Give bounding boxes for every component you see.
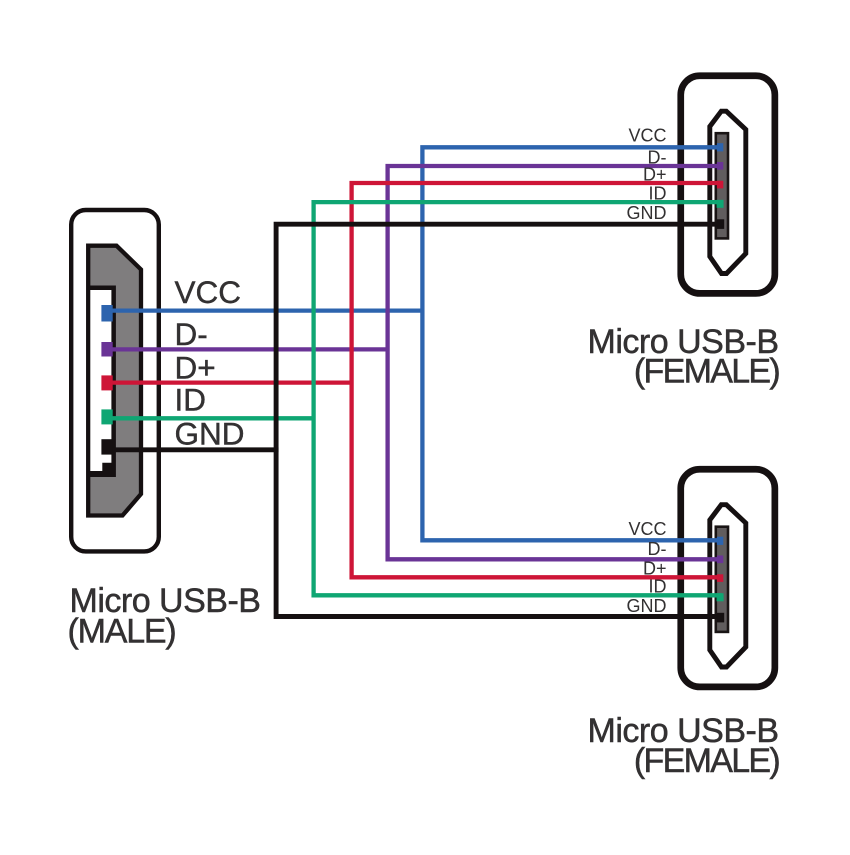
svg-text:VCC: VCC — [628, 519, 666, 539]
svg-text:GND: GND — [627, 596, 667, 616]
svg-text:ID: ID — [175, 382, 207, 418]
svg-text:GND: GND — [175, 415, 245, 451]
svg-text:(FEMALE): (FEMALE) — [634, 742, 779, 780]
svg-text:(MALE): (MALE) — [68, 612, 176, 650]
svg-text:D+: D+ — [643, 165, 667, 185]
svg-text:ID: ID — [649, 577, 667, 597]
svg-text:GND: GND — [627, 203, 667, 223]
svg-text:VCC: VCC — [175, 274, 242, 310]
svg-text:D+: D+ — [643, 558, 667, 578]
svg-text:D+: D+ — [175, 349, 216, 385]
svg-text:D-: D- — [648, 539, 667, 559]
svg-text:ID: ID — [649, 183, 667, 203]
svg-text:(FEMALE): (FEMALE) — [634, 353, 779, 391]
svg-text:D-: D- — [175, 316, 208, 352]
svg-text:VCC: VCC — [628, 126, 666, 146]
